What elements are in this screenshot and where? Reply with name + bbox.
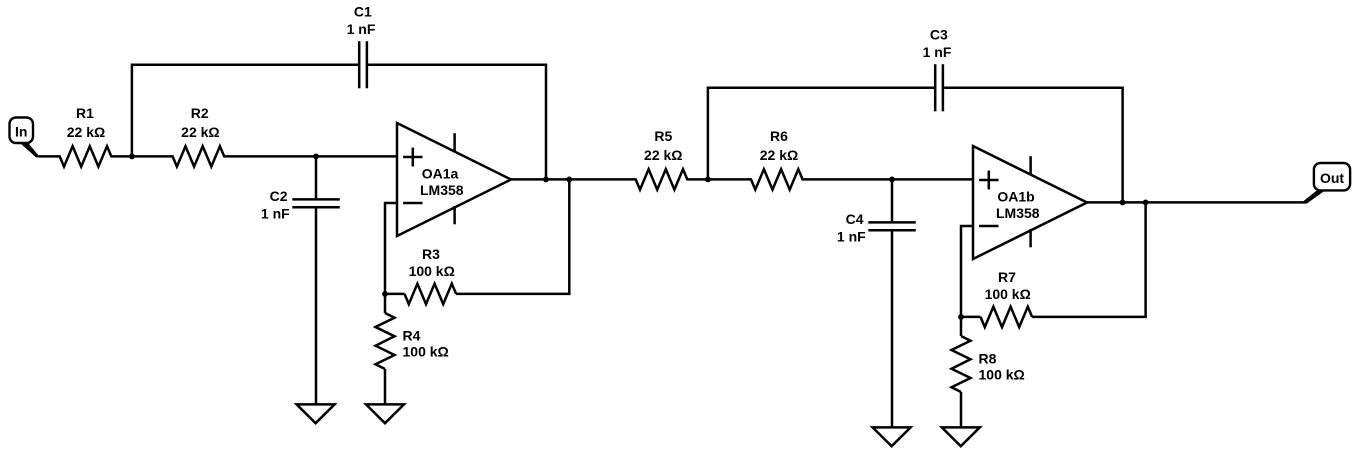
op-amp OA1b plus input marker [979, 179, 998, 182]
wire feedback from node D down and left to R3 [456, 179, 569, 294]
terminal In [10, 118, 34, 144]
svg-text:1 nF: 1 nF [347, 21, 376, 37]
ground for C2 [297, 404, 335, 423]
terminal Out stub wire [1303, 191, 1324, 204]
ground for R4 [366, 404, 404, 423]
op-amp OA1a positive supply pin tick [453, 133, 456, 151]
terminal Out [1314, 163, 1350, 190]
wire op-amp OA1b output to Out terminal [1087, 201, 1307, 204]
svg-text:1 nF: 1 nF [261, 205, 290, 221]
svg-text:22 kΩ: 22 kΩ [644, 147, 682, 163]
svg-text:1 nF: 1 nF [837, 228, 866, 244]
op-amp OA1a minus input marker [403, 202, 422, 205]
op-amp OA1b positive supply pin tick [1029, 156, 1032, 174]
svg-text:100 kΩ: 100 kΩ [409, 263, 455, 279]
wire C3 right plate to output node [943, 88, 1123, 203]
capacitor C3 plates [934, 64, 937, 111]
node A junction R1/R2/C1 [129, 154, 135, 160]
wire In to R1, resistor R1, wire, resistor R2, wire to op-amp U1 noninverting input [39, 146, 397, 166]
node I output OA1b / feedback [1143, 200, 1149, 206]
svg-text:100 kΩ: 100 kΩ [985, 286, 1031, 302]
svg-text:In: In [15, 124, 27, 140]
wire node E up to C3 left plate [708, 88, 935, 180]
svg-text:C1: C1 [354, 4, 372, 20]
wire OA1b inverting input to node J [961, 226, 973, 317]
wire node A up to C1 left plate [132, 65, 359, 157]
svg-text:22 kΩ: 22 kΩ [760, 147, 798, 163]
ground for C4 [873, 427, 911, 446]
svg-text:R3: R3 [422, 246, 440, 262]
node B junction R2/C2 [313, 154, 319, 160]
node H output OA1b / C3 drop [1120, 200, 1126, 206]
wire R8 to ground [960, 392, 963, 428]
svg-text:C4: C4 [846, 211, 864, 227]
node E junction R5/R6/C3 [705, 177, 711, 183]
svg-text:R6: R6 [770, 128, 788, 144]
resistor R7 [981, 307, 1033, 327]
wire op-amp OA1a output, resistor R5, resistor R6, wire to op-amp OA1b noninverting input [511, 169, 973, 189]
node G junction R3/R4/inverting input [382, 291, 388, 297]
wire node G to R4 [384, 294, 387, 313]
svg-text:C2: C2 [270, 188, 288, 204]
wire C4 to ground [891, 231, 894, 427]
svg-text:R4: R4 [403, 327, 421, 343]
capacitor C1 plates [358, 41, 361, 88]
svg-text:R2: R2 [191, 105, 209, 121]
op-amp U1 OA1b body [973, 146, 1087, 259]
wire OA1a inverting input to node G [385, 203, 397, 294]
node C output OA1a / C1 drop [543, 177, 549, 183]
resistor R3 [405, 284, 457, 304]
svg-text:R1: R1 [76, 105, 94, 121]
op-amp OA1a plus input marker [403, 156, 422, 159]
op-amp U1 OA1a body [397, 123, 511, 236]
wire node B down to C2 [315, 156, 318, 198]
svg-text:22 kΩ: 22 kΩ [181, 124, 219, 140]
svg-text:Out: Out [1320, 170, 1344, 186]
ground for R8 [942, 427, 980, 446]
node D output OA1a / feedback [566, 177, 572, 183]
svg-text:LM358: LM358 [420, 182, 464, 198]
wire R4 to ground [384, 369, 387, 405]
resistor R8 [952, 336, 971, 392]
svg-text:R5: R5 [654, 128, 672, 144]
wire node J to R8 [960, 317, 963, 336]
node J junction R7/R8/inverting input [958, 314, 964, 320]
node F junction R6/C4 [889, 177, 895, 183]
wire feedback from node I down and left to R7 [1032, 202, 1146, 317]
wire C1 right plate to output node [367, 65, 546, 180]
svg-text:LM358: LM358 [996, 205, 1040, 221]
svg-text:C3: C3 [930, 27, 948, 43]
svg-text:100 kΩ: 100 kΩ [403, 344, 449, 360]
op-amp OA1a negative supply pin tick [453, 206, 456, 224]
wire C2 to ground [315, 208, 318, 404]
svg-text:OA1b: OA1b [997, 189, 1034, 205]
wire R3 to node G [385, 293, 405, 296]
terminal In stub wire [19, 142, 40, 157]
svg-text:22 kΩ: 22 kΩ [67, 124, 105, 140]
capacitor C2 plates [292, 198, 340, 201]
wire R7 to node J [961, 316, 981, 319]
op-amp OA1b negative supply pin tick [1029, 229, 1032, 247]
svg-text:100 kΩ: 100 kΩ [979, 367, 1025, 383]
wire node F down to C4 [891, 179, 894, 221]
svg-text:1 nF: 1 nF [923, 44, 952, 60]
svg-text:OA1a: OA1a [422, 166, 459, 182]
op-amp OA1b minus input marker [979, 225, 998, 228]
resistor R4 [376, 313, 395, 369]
svg-text:R8: R8 [979, 350, 997, 366]
svg-text:R7: R7 [998, 269, 1016, 285]
capacitor C4 plates [868, 221, 916, 224]
